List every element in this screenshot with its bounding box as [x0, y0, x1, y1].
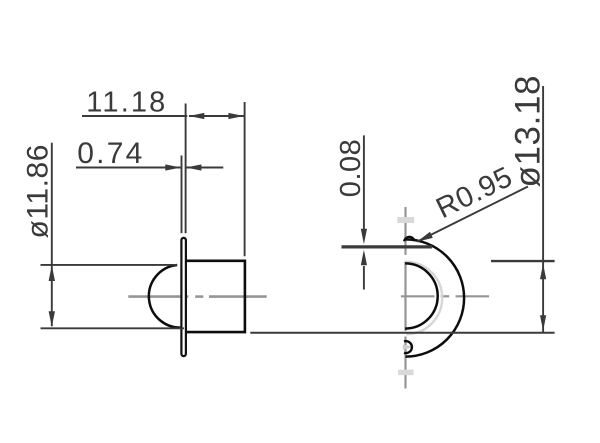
arrowhead left (11.18): [189, 113, 205, 119]
arrowhead right (11.18): [228, 113, 244, 119]
centerline horizontal (front view): [401, 295, 489, 297]
arrowhead up (dia 13.18): [540, 264, 546, 280]
arrowhead left-pointing (0.74): [186, 164, 202, 170]
extension line (flange left face): [181, 156, 183, 234]
extension line bottom (dia 11.86): [41, 327, 185, 329]
grip tick bottom (light): [398, 370, 413, 376]
arrowhead right-pointing (0.74): [165, 164, 181, 170]
outer arc (front view): [406, 239, 465, 356]
grip tick top (light): [397, 217, 414, 223]
arrowhead down (0.08): [361, 229, 367, 245]
centerline vertical (front view): [404, 207, 406, 389]
extension line top (dia 11.86): [41, 264, 178, 266]
leader arrowhead (R0.95): [417, 232, 433, 242]
arrowhead up (0.08): [361, 250, 367, 266]
centerline horizontal (left view): [128, 295, 266, 298]
dimension line right part (0.74): [186, 167, 223, 169]
dimension line vertical (dia 11.86): [51, 143, 53, 327]
arrowhead down (dia 13.18): [540, 315, 546, 331]
arrowhead up (dia 11.86): [49, 265, 55, 281]
extension line (flange right face): [185, 104, 187, 234]
flange (side view): [181, 238, 186, 356]
top fillet bump (R0.95): [404, 237, 414, 241]
dimension line left part (0.74): [76, 167, 181, 169]
extension line (body right end): [244, 102, 246, 256]
body rectangle (side view): [187, 261, 245, 332]
svg-text:11.18: 11.18: [86, 87, 165, 119]
extension tick top (dia 13.18): [491, 260, 555, 262]
dimension shaft (11.18): [189, 115, 244, 117]
bottom hook arc: [404, 341, 412, 353]
arrowhead down (dia 11.86): [49, 311, 55, 327]
svg-text:ø13.18: ø13.18: [509, 76, 548, 188]
bottom extension line (dia 13.18): [250, 332, 554, 334]
light inner arc (front view): [406, 262, 442, 334]
light arrowhead (bottom hook): [403, 344, 415, 349]
dimension line vertical (dia 13.18): [542, 86, 544, 333]
dimension line up (0.08): [363, 266, 365, 290]
datum line 0.08 (thick): [342, 245, 432, 248]
dimension leader line (11.18 text side): [82, 115, 187, 117]
leader line (R0.95): [417, 187, 528, 242]
inner arc (front view): [405, 263, 438, 328]
svg-text:0.74: 0.74: [77, 137, 142, 170]
svg-text:ø11.86: ø11.86: [21, 145, 54, 239]
dimension line down (0.08): [363, 135, 365, 230]
dome arc (side view lens): [149, 265, 184, 328]
svg-text:0.08: 0.08: [335, 139, 367, 197]
